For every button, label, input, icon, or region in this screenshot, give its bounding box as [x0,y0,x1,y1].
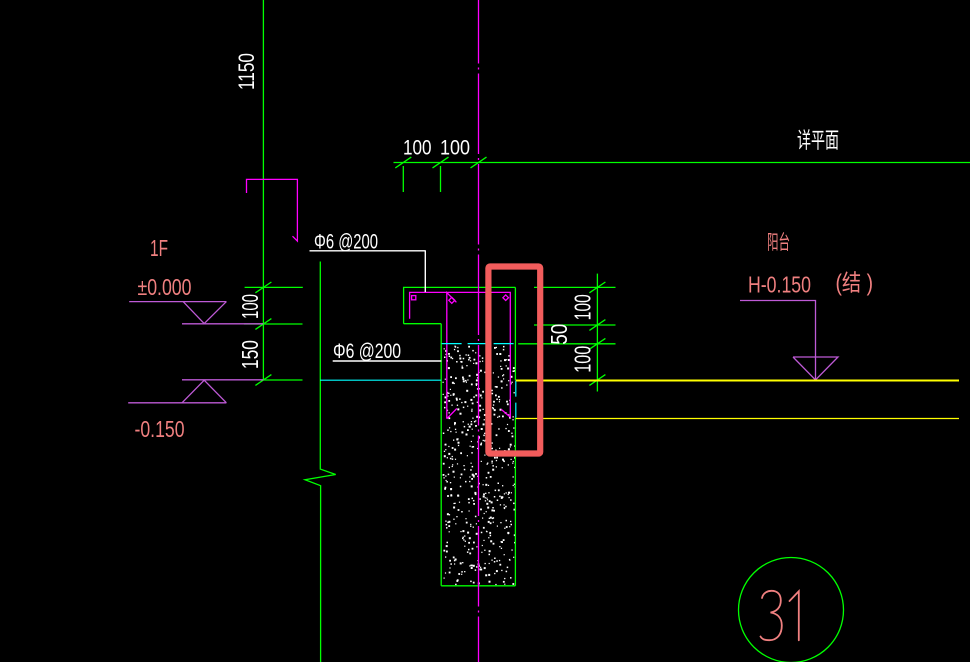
svg-text:阳台: 阳台 [767,231,790,254]
svg-text:-0.150: -0.150 [135,416,185,442]
svg-text:50: 50 [546,324,572,345]
svg-text:Φ6 @200: Φ6 @200 [333,340,401,363]
svg-text:100: 100 [440,137,470,160]
svg-text:150: 150 [237,340,263,369]
svg-text:100: 100 [570,294,596,320]
svg-text:100: 100 [570,346,596,373]
svg-text:1150: 1150 [234,53,259,90]
svg-text:(结 ): (结 ) [836,270,874,296]
svg-text:1F: 1F [150,235,168,261]
svg-text:详平面: 详平面 [797,128,839,153]
svg-text:H-0.150: H-0.150 [748,271,811,297]
svg-text:±0.000: ±0.000 [138,274,192,300]
svg-text:Φ6 @200: Φ6 @200 [314,231,378,254]
svg-text:100: 100 [237,294,263,319]
svg-text:100: 100 [403,137,432,160]
